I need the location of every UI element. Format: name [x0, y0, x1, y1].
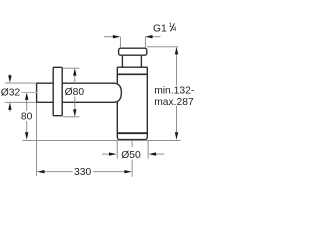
dim Ø50: left arrow [102, 153, 109, 155]
wall flange [53, 67, 62, 115]
dim 330: line and arrows [44, 171, 72, 173]
body top seam [117, 73, 147, 75]
dim G1 1/4: left arrow [104, 36, 113, 38]
dim Ø80: extension lines [63, 67, 80, 69]
centerline of pipe [22, 92, 38, 94]
inlet pipe with bulge into body [37, 83, 122, 102]
dim Ø50: extension lines [116, 141, 118, 159]
dim Ø80: vertical line and arrows [74, 75, 76, 84]
svg-text:330: 330 [74, 167, 91, 178]
dim 330: left extension line (from pipe end down) [36, 103, 38, 176]
reference line (mounting level) [23, 139, 181, 141]
svg-text:Ø80: Ø80 [65, 87, 85, 98]
svg-text:Ø32: Ø32 [1, 87, 21, 98]
dim Ø32: arrows outside [9, 74, 11, 76]
svg-text:min.132-: min.132- [154, 85, 194, 96]
top nut G1 1/4 [119, 48, 147, 55]
dim Ø50: right arrow [156, 153, 164, 155]
dim min-max: extension line from nut top [147, 46, 179, 48]
dim min-max: vertical line and arrows [176, 54, 178, 85]
dim 80: vertical line and arrows [26, 100, 28, 111]
svg-text:max.287: max.287 [154, 97, 194, 108]
svg-text:Ø50: Ø50 [121, 150, 141, 161]
dim G1 1/4: extension lines [119, 37, 121, 48]
center extension line below cup [131, 141, 133, 147]
svg-text:G1: G1 [153, 23, 167, 34]
trap body (bottle) [117, 67, 147, 139]
cup seam [117, 132, 147, 134]
svg-text:80: 80 [21, 112, 33, 123]
dim Ø32: extension lines [5, 82, 36, 84]
dim G1 1/4: right arrow [152, 36, 160, 38]
tailpiece neck [121, 55, 123, 67]
